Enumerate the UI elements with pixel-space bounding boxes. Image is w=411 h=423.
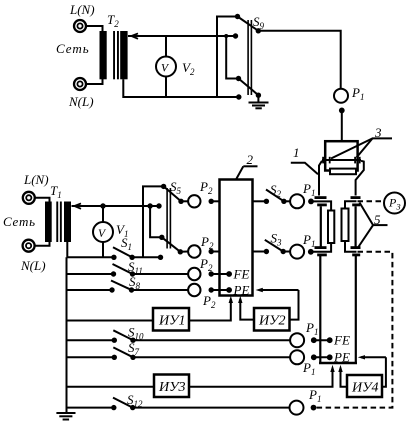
node unit2 left pin4 — [209, 287, 214, 292]
svg-text:FE: FE — [333, 333, 350, 348]
switch S5 blade top — [164, 186, 181, 201]
terminal P2 unit2 left pin3 — [188, 268, 200, 280]
node V1 tap — [100, 203, 105, 208]
node PE inside unit6 — [327, 354, 333, 360]
wire arrow into unit6 PE from IU4 — [361, 356, 386, 358]
node S5 pivot 2 — [178, 249, 183, 254]
unit 6 bottom edge — [319, 362, 357, 365]
wire unit6 bottom to IU4 input — [341, 368, 348, 387]
terminal N top (mains input) — [74, 78, 86, 90]
node S8 right — [129, 287, 134, 292]
node unit2 left pin3 — [209, 271, 214, 276]
wire unit2 bottom to IU2 input — [240, 299, 254, 320]
wire terminal L to T2 primary — [86, 26, 103, 32]
terminal N bottom — [23, 240, 35, 252]
wire S9 left bus (contacts 1-4 tie) — [217, 17, 238, 98]
node S7 right — [130, 355, 135, 360]
unit IU4 — [347, 375, 382, 397]
label 2 with leader — [236, 152, 258, 180]
wire pin1 node to unit2 — [211, 200, 219, 202]
arrowhead into unit6 PE — [358, 355, 365, 359]
switch S8 blade — [111, 281, 132, 291]
node P1 bottom — [311, 405, 317, 411]
node S5 contact 4 — [158, 255, 163, 260]
node S9 pivot 1 — [256, 28, 261, 33]
unit IU3 — [154, 375, 189, 398]
galvanometer P3 — [384, 193, 405, 214]
node S11 right — [130, 271, 135, 276]
node P1 left clamp top — [308, 199, 314, 205]
transformer T2 secondary winding — [120, 31, 127, 79]
wire terminal N to T2 primary — [86, 79, 103, 84]
ground at main bus — [56, 413, 75, 420]
switch S5 blade bottom — [162, 237, 181, 252]
node unit2 left pin2 — [209, 249, 214, 254]
svg-text:PE: PE — [233, 283, 250, 298]
svg-text:N(L): N(L) — [68, 94, 94, 109]
node S5 contact 1 — [161, 184, 166, 189]
dashed wire right clamp top to P3 — [358, 200, 385, 202]
node S10 right — [130, 338, 135, 343]
node S1 left — [111, 255, 116, 260]
svg-text:N(L): N(L) — [20, 258, 46, 273]
voltmeter V1 top lead — [102, 206, 104, 222]
switch S9 blade top — [238, 17, 259, 31]
unit 6 left side — [319, 256, 321, 364]
wire PE node into unit6 — [314, 356, 330, 358]
transformer T1 secondary winding — [64, 202, 71, 243]
node S7 left — [112, 355, 117, 360]
node S1 right — [129, 255, 134, 260]
wire row S1 — [67, 256, 161, 258]
svg-text:ИУ2: ИУ2 — [258, 314, 286, 329]
terminal L top (mains input) — [74, 20, 86, 32]
switch S11 blade — [113, 264, 133, 274]
wire S2 contact to P1 terminal — [284, 200, 290, 202]
svg-text:Сеть: Сеть — [3, 214, 36, 229]
wire FE node into unit6 — [314, 339, 330, 341]
node P1 FE row — [311, 337, 317, 343]
wire T1 secondary bottom to bus — [66, 242, 68, 257]
terminal L bottom — [23, 192, 35, 204]
node unit2 left pin1 — [209, 199, 214, 204]
svg-text:ИУ3: ИУ3 — [158, 380, 186, 395]
wire pin3 node through unit2 edge to FE — [211, 273, 229, 275]
arrow into unit2 bottom right — [238, 296, 242, 303]
svg-text:L(N): L(N) — [69, 2, 95, 17]
arrow into unit6 bottom left — [330, 365, 334, 372]
switch S5 mechanical link — [166, 188, 171, 249]
svg-text:FE: FE — [233, 267, 250, 282]
svg-text:ИУ4: ИУ4 — [351, 381, 379, 396]
voltmeter V1 — [93, 222, 113, 242]
wire terminal N to T1 primary — [35, 242, 50, 246]
wire resistor top to right clamp gap — [345, 201, 357, 208]
wire S9 contact2 to contact3 link — [226, 36, 238, 79]
node S3 right contact — [281, 249, 286, 254]
wire pin2 node to unit2 — [211, 251, 219, 253]
wire P1 node to resistor top (through clamp gap) — [311, 201, 331, 210]
switch S9 blade bottom — [239, 79, 259, 96]
wire IU3 output to unit6 bottom arrow — [189, 368, 333, 387]
terminal P1 left clamp bottom — [290, 245, 304, 259]
wire S5 pivot1 to P2 — [181, 200, 188, 202]
wire row S7 to P1 PE — [67, 356, 291, 358]
switch S1 blade — [113, 247, 132, 257]
terminal P2 unit2 left pin4 — [188, 284, 200, 296]
unit IU1 — [153, 308, 189, 331]
wire row S8 to P2 pin4 — [67, 289, 189, 291]
right branch conductor — [355, 206, 357, 247]
wire S3 contact to P1 terminal — [283, 251, 290, 253]
node S8 left — [109, 287, 114, 292]
terminal P1 PE row — [290, 350, 304, 364]
node S5 pivot 1 — [178, 199, 183, 204]
svg-text:ИУ1: ИУ1 — [158, 314, 186, 329]
wire P1 node to resistor bottom (through clamp gap) — [311, 243, 331, 252]
label 5 with leaders — [358, 203, 388, 248]
node S9 contact 1 — [235, 14, 240, 19]
node S9 contact 3 — [236, 76, 241, 81]
heater element inside device 3 — [322, 157, 361, 164]
node S9 contact 4 — [236, 94, 241, 99]
wire terminal L to T1 primary — [35, 198, 50, 202]
wire row S12 — [67, 407, 290, 409]
wire top rail from T2 tap to S9 contact2 — [128, 35, 236, 37]
unit 2 (measuring unit) — [220, 180, 253, 296]
transformer T2 primary winding — [100, 31, 107, 79]
label 3 with leaders — [331, 125, 392, 159]
transformer T1 primary winding — [45, 202, 52, 243]
wire S5 contact1 tie to row S1 — [143, 186, 164, 257]
switch S7 blade — [113, 347, 133, 357]
wire P1 node down to device 3 — [341, 110, 343, 141]
node junction tap rail — [147, 203, 152, 208]
node S2 right contact — [281, 199, 286, 204]
node FE inside unit2 — [226, 271, 232, 277]
node S11 left — [111, 271, 116, 276]
wire row IU1 input — [67, 320, 154, 322]
voltmeter V2 top lead — [165, 36, 167, 57]
node S3 left contact — [264, 249, 269, 254]
wire IU4 output up to PE arrow — [382, 357, 386, 386]
arrow tap on T1 secondary — [75, 203, 82, 208]
wire tap rail T1 to S5 contact2 — [72, 205, 160, 207]
node S9 contact 2 — [233, 33, 238, 38]
left clamp bottom (contact 5) — [315, 246, 327, 256]
wire S2 row: unit2 right pin1 — [253, 200, 267, 202]
voltmeter V1 bottom lead — [102, 242, 104, 257]
switch S2 blade — [266, 190, 284, 202]
transformer T2 core — [113, 31, 119, 79]
wire S9 pivot1 to P1 terminal — [258, 31, 340, 89]
resistor right shunt — [342, 209, 349, 242]
transformer T1 core — [56, 202, 62, 243]
node S5 contact 3 — [159, 235, 164, 240]
arrow into unit2 bottom left — [229, 296, 233, 303]
left clamp top (contact 5) — [315, 196, 327, 206]
wire row S10 to P1 FE — [67, 339, 291, 341]
terminal P1 top right — [334, 89, 348, 103]
node FE inside unit6 — [327, 337, 333, 343]
node S2 left contact — [264, 199, 269, 204]
terminal P1 bottom — [290, 401, 304, 415]
ground at S9 — [249, 95, 269, 108]
switch S3 blade — [265, 240, 283, 252]
switch S10 blade — [113, 330, 133, 340]
right clamp top (contact 5) — [351, 196, 361, 206]
terminal P2 unit2 left pin1 — [188, 195, 200, 207]
voltmeter V2 bottom lead — [165, 77, 167, 98]
switch S9 mechanical link — [247, 20, 252, 95]
voltmeter V2 — [156, 57, 176, 77]
node below P1 top right — [339, 108, 345, 114]
dashed wire right clamp bottom to bottom P1 — [316, 252, 392, 408]
main left bus — [66, 257, 68, 413]
wire IU1 output to unit2 bottom arrow — [189, 299, 231, 321]
wire device3 left lead to left clamp — [319, 161, 322, 196]
svg-text:2: 2 — [247, 152, 254, 167]
wire IU2 output up to PE arrow — [290, 290, 299, 320]
node S10 left — [112, 338, 117, 343]
arrow tap on T2 secondary — [132, 33, 139, 38]
node S12 right — [130, 405, 135, 410]
wire S5 contact2-contact3 link — [150, 206, 162, 237]
svg-text:L(N): L(N) — [23, 172, 49, 187]
terminal P2 unit2 left pin2 — [188, 245, 200, 257]
wire device3 right lead to right clamp — [356, 161, 364, 196]
node P1 left clamp bottom — [308, 249, 314, 255]
unit IU2 — [254, 308, 290, 331]
terminal P1 left clamp top — [290, 194, 304, 208]
device 3 enclosure — [325, 141, 357, 170]
node S9 pivot 2 — [256, 93, 261, 98]
wire T2 secondary bottom to bottom rail — [123, 79, 239, 97]
left branch conductor — [320, 206, 322, 247]
arrowhead into unit2 PE — [256, 288, 263, 292]
svg-text:Сеть: Сеть — [56, 41, 90, 56]
terminal P1 FE row — [290, 333, 304, 347]
right clamp bottom (contact 5) — [351, 246, 361, 256]
wire resistor bottom to right clamp gap — [345, 241, 357, 252]
arrow into unit6 bottom right — [338, 365, 342, 372]
node PE inside unit2 — [226, 287, 232, 293]
wire row S11 to P2 pin3 — [67, 273, 189, 275]
unit 6 right side — [355, 256, 357, 364]
node S12 left — [111, 405, 116, 410]
wire S3 row: unit2 right pin2 — [253, 251, 267, 253]
svg-text:1: 1 — [293, 145, 300, 160]
switch S12 blade — [113, 398, 133, 408]
label 1 with leader — [291, 145, 318, 174]
wire arrow line into unit2 PE from IU2 — [259, 289, 299, 291]
node S5 contact 2 — [156, 203, 161, 208]
node P1 PE row — [311, 354, 317, 360]
wire S5 pivot2 to P2 — [180, 251, 188, 253]
resistor 4 (left shunt) — [328, 211, 334, 244]
node junction on top rail — [224, 34, 228, 38]
wire pin4 node through unit2 edge to PE — [211, 289, 229, 291]
svg-text:PE: PE — [333, 350, 350, 365]
device 3 body plate — [330, 169, 356, 175]
wire row IU3 input — [67, 386, 155, 388]
